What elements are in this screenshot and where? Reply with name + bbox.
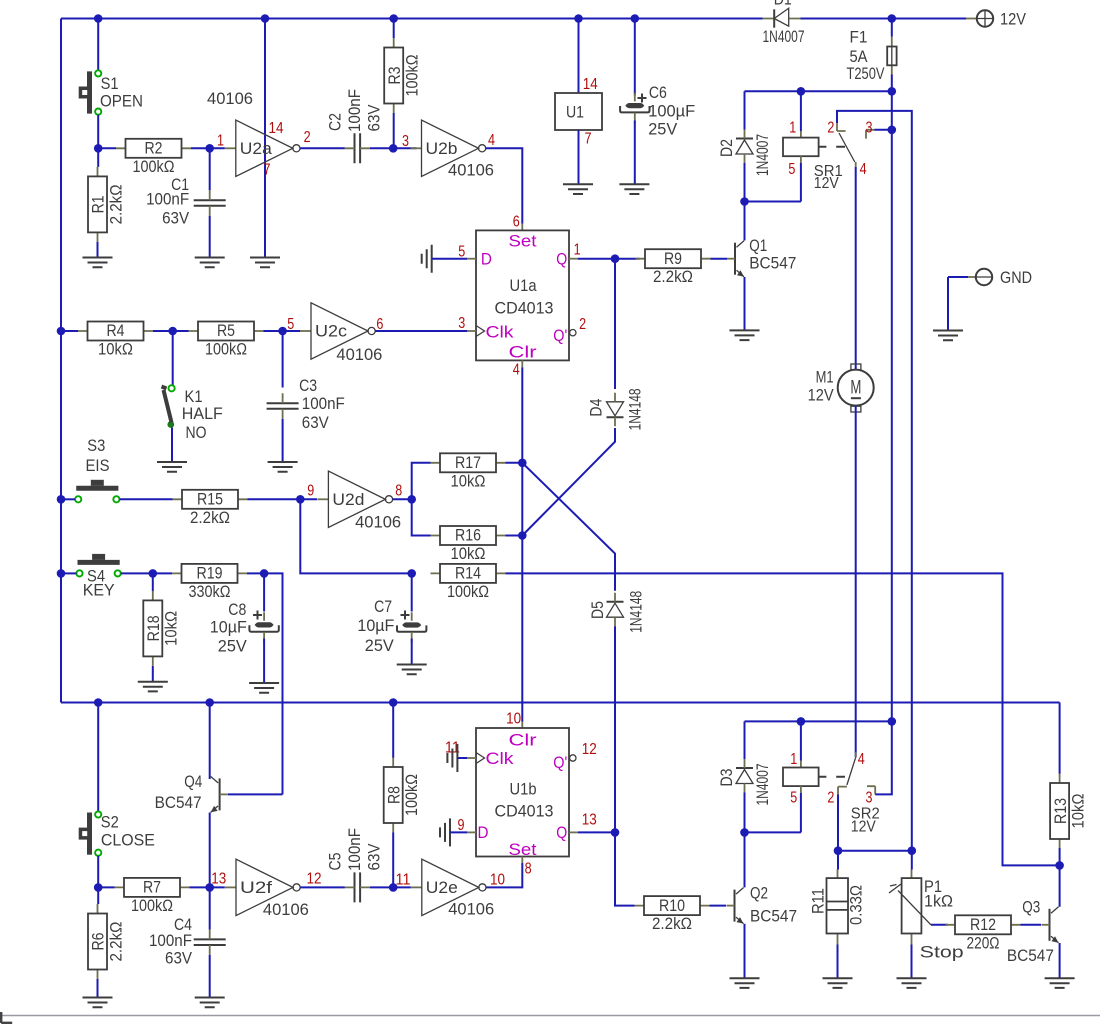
wire SR1 pin2 to sense line (837, 111, 912, 851)
svg-text:1kΩ: 1kΩ (924, 892, 953, 911)
svg-text:330kΩ: 330kΩ (189, 582, 231, 601)
svg-text:U1: U1 (566, 103, 584, 122)
ground tie at U1b D input (440, 818, 450, 846)
wire rail to S4 (61, 572, 76, 574)
wire U2f out to C5 (300, 886, 345, 888)
svg-text:10kΩ: 10kΩ (1068, 794, 1087, 829)
switch S4 KEY (76, 554, 120, 577)
wire D3 top (744, 721, 746, 759)
svg-text:R3: R3 (385, 67, 404, 85)
svg-text:R15: R15 (197, 490, 223, 509)
svg-text:100kΩ: 100kΩ (131, 896, 173, 915)
svg-text:1N4148: 1N4148 (626, 388, 645, 430)
svg-text:12: 12 (307, 871, 322, 888)
node junction rail/S4 (61,573.4) (57, 569, 66, 578)
wire motor to SR2 pin4 (855, 406, 857, 757)
resistor R15 2.2k (173, 490, 248, 527)
svg-text:U2a: U2a (240, 139, 273, 158)
svg-text:Q': Q' (553, 326, 567, 345)
wire R7 to U2f node (190, 886, 225, 888)
capacitor C3 100nF (267, 393, 299, 419)
svg-text:C5: C5 (326, 853, 345, 871)
wire Q2 collector (744, 832, 746, 887)
svg-text:40106: 40106 (207, 89, 253, 108)
svg-text:10kΩ: 10kΩ (162, 611, 181, 646)
svg-text:KEY: KEY (83, 581, 115, 600)
wire D5 to U1b Q node (614, 626, 616, 832)
svg-text:10µF: 10µF (210, 617, 247, 636)
IC U1b CD4013 flip-flop (476, 728, 576, 859)
svg-text:R18: R18 (144, 615, 163, 641)
wire C4 top (209, 887, 211, 929)
wire R6 top (97, 887, 99, 904)
svg-text:2.2kΩ: 2.2kΩ (652, 914, 692, 933)
relay SR1 coil (783, 138, 845, 157)
svg-text:R5: R5 (217, 321, 235, 340)
wire U1a Clr down to R17 node (521, 360, 523, 367)
wire C6 bottom (634, 121, 636, 184)
svg-text:100kΩ: 100kΩ (133, 157, 175, 176)
svg-text:BC547: BC547 (1007, 946, 1054, 965)
svg-text:10µF: 10µF (357, 616, 394, 635)
wire R13 bottom to Q3 collector node (1059, 848, 1061, 865)
inverter U2b 40106 (411, 120, 486, 176)
wire R19 to Q4 base (via down) (247, 573, 283, 794)
node junction SR2-2/R11 (838,850.7) (834, 846, 843, 855)
wire D2 top (744, 91, 746, 129)
wire U2d out node (393, 498, 412, 500)
node junction F1/rail (891.8,18.5) (888, 14, 897, 23)
node junction R2/C1/U2a (209.7,148.3) (205, 144, 214, 153)
ground symbol at GND terminal (933, 331, 963, 341)
ground below R18 (138, 682, 168, 692)
svg-text:U2f: U2f (240, 878, 272, 897)
resistor R7 100k (115, 878, 190, 915)
resistor R11 0.33R shunt (827, 870, 849, 945)
svg-text:63V: 63V (365, 104, 384, 132)
svg-text:3: 3 (458, 315, 465, 332)
wire U1b D input (450, 831, 467, 833)
wire S2 feed from bus (97, 703, 99, 812)
svg-text:2: 2 (579, 316, 586, 333)
svg-text:R11: R11 (809, 888, 828, 914)
svg-text:1N4007: 1N4007 (763, 27, 805, 46)
svg-text:M: M (850, 377, 861, 399)
ground tie at U1a D input (422, 245, 432, 273)
wire R2 to U2a input node (191, 147, 225, 149)
wire R10 to Q2 base (710, 905, 727, 907)
ground below C8 (249, 683, 279, 693)
supply terminal 12V (966, 10, 993, 26)
wire C7 top (411, 573, 413, 611)
svg-text:3: 3 (866, 789, 873, 806)
wire U2d input branch down to R14 line (300, 499, 411, 573)
svg-text:R19: R19 (197, 564, 223, 583)
node junction Q4/R7/U2f/C4 (209.7,887.4) (205, 883, 214, 892)
svg-text:40106: 40106 (263, 900, 309, 919)
inverter U2c 40106 (300, 303, 375, 359)
wire crossover R16-node to D4 (522, 428, 615, 536)
ground below R11 (823, 978, 853, 988)
svg-text:BC547: BC547 (749, 254, 796, 273)
resistor R10 2.2k (635, 896, 710, 933)
node junction R5/C3/U2c (282.6,331) (278, 327, 287, 336)
wire Q4 base from R19/C8 node (228, 793, 283, 795)
node junction F1/SR2-rail (891.8,721.4) (888, 717, 897, 726)
wire R11/P1 node link (838, 850, 912, 852)
svg-text:D: D (478, 823, 489, 842)
node junction U1/rail (578.5,18.5) (574, 14, 583, 23)
svg-text:100kΩ: 100kΩ (447, 582, 489, 601)
wire C6 top (634, 19, 636, 96)
svg-text:3: 3 (866, 119, 873, 136)
inverter U2e 40106 (411, 859, 486, 915)
fuse F1 (887, 37, 896, 75)
wire GND terminal drop (947, 277, 949, 330)
svg-text:Q: Q (556, 823, 567, 842)
ground below P1 (897, 978, 927, 988)
svg-text:6: 6 (513, 213, 520, 230)
resistor R9 2.2k (636, 249, 711, 286)
svg-text:100kΩ: 100kΩ (205, 340, 247, 359)
svg-text:Q2: Q2 (750, 884, 768, 903)
node junction SR2-coil/rail (800.9,721.4) (797, 717, 806, 726)
svg-text:BC547: BC547 (750, 907, 797, 926)
resistor R14 100k (431, 564, 506, 601)
wire R6 bottom (97, 979, 99, 997)
wire U1 pin7 to ground (578, 130, 580, 184)
ground below C3 (268, 462, 298, 472)
wire Q4 collector from bus (209, 703, 211, 780)
svg-text:C3: C3 (299, 376, 317, 395)
svg-text:7: 7 (585, 131, 592, 148)
svg-text:14: 14 (269, 120, 284, 137)
svg-text:12: 12 (582, 741, 597, 758)
svg-text:C2: C2 (326, 113, 345, 131)
ground below Q2 (730, 978, 760, 988)
wire U2d node to R16 (412, 499, 431, 535)
svg-text:0.33Ω: 0.33Ω (847, 885, 866, 925)
node junction rail/S3 (61,499.3) (57, 495, 66, 504)
svg-text:1: 1 (789, 120, 796, 137)
wire SR1 pin3 to F1 line (875, 129, 892, 131)
svg-text:R13: R13 (1051, 798, 1070, 824)
wire Q3 collector (1059, 865, 1061, 906)
wire R12 to Q3 base (1021, 924, 1042, 926)
svg-text:1: 1 (217, 133, 224, 150)
svg-text:40106: 40106 (355, 513, 401, 532)
wire K1 feed (172, 331, 174, 385)
svg-text:40106: 40106 (448, 900, 494, 919)
svg-text:4: 4 (860, 161, 867, 178)
svg-text:2: 2 (304, 129, 311, 146)
IC U1a CD4013 flip-flop (476, 230, 576, 361)
ground below U1 (563, 184, 593, 194)
wire 12V bus lower (61, 702, 1060, 704)
svg-text:Clr: Clr (509, 342, 537, 361)
wire Q1 emitter to ground (744, 277, 746, 330)
diode D3 1N4007 (736, 759, 753, 793)
wire C7 bottom (411, 639, 413, 664)
svg-text:R4: R4 (107, 321, 125, 340)
supply terminal GND (948, 269, 992, 285)
wire C8 bottom (263, 639, 265, 683)
svg-text:12V: 12V (1000, 10, 1027, 29)
svg-text:12V: 12V (851, 819, 877, 836)
relay SR2 coil (783, 768, 845, 787)
svg-text:R16: R16 (455, 526, 481, 545)
svg-text:Clk: Clk (486, 322, 515, 341)
node junction R3/rail (393.7,18.5) (389, 14, 398, 23)
wire C4 bottom (209, 955, 211, 997)
svg-text:63V: 63V (302, 413, 330, 432)
resistor R8 100k (384, 758, 421, 833)
svg-text:C6: C6 (649, 83, 667, 102)
wire SR2 pin3 to F1 line (875, 721, 892, 794)
svg-text:D4: D4 (587, 399, 606, 417)
node junction SR1-2/P1 (911.8,850.7) (908, 846, 917, 855)
svg-text:GND: GND (1000, 268, 1032, 287)
svg-text:U1a: U1a (510, 276, 537, 295)
svg-text:2.2kΩ: 2.2kΩ (653, 267, 693, 286)
svg-text:100kΩ: 100kΩ (402, 774, 421, 816)
transistor Q4 BC547 (mirrored) (211, 776, 228, 812)
switch S1 OPEN (79, 70, 102, 114)
wire C5 right to U2e node (370, 886, 393, 888)
wire Q1 collector (744, 202, 746, 241)
node junction S1/rail (98.2,18.5) (94, 14, 103, 23)
diode D4 1N4148 (607, 393, 624, 427)
node junction C2/R3/U2b (393.2,148.3) (389, 144, 398, 153)
wire Q3 emitter to ground (1059, 943, 1061, 978)
wire R3 bottom (393, 113, 395, 148)
svg-text:14: 14 (583, 76, 598, 93)
svg-text:EIS: EIS (86, 456, 110, 475)
wire R15 to U2d node (248, 498, 318, 500)
svg-text:S1: S1 (101, 74, 119, 93)
wire K1 to ground (171, 428, 173, 462)
svg-text:HALF: HALF (182, 404, 223, 423)
ground below C4 (195, 998, 225, 1008)
wire C3 bottom (282, 419, 284, 461)
motor M1 12V (838, 364, 874, 412)
potentiometer P1 1k (889, 870, 931, 945)
svg-text:2: 2 (827, 789, 834, 806)
wire D3 bottom to Q2 collector node (745, 793, 801, 833)
node junction S2/R6/R7 (98.2,887.4) (94, 883, 103, 892)
svg-text:2.2kΩ: 2.2kΩ (190, 508, 230, 527)
inverter U2f 40106 (225, 859, 300, 915)
wire R18 bottom (152, 666, 154, 681)
ground below C1 (195, 258, 225, 268)
capacitor C7 10uF electrolytic (397, 611, 426, 644)
resistor R19 330k (172, 564, 247, 601)
wire U1 pin14 feed (578, 19, 580, 94)
ground below U2a power (250, 258, 280, 268)
node junction R14/C7 (411.7,573.4) (407, 569, 416, 578)
transistor Q2 BC547 (727, 888, 744, 924)
svg-text:Set: Set (509, 231, 537, 250)
node junction bus/R8 (393.2,702.5) (389, 698, 398, 707)
wire R14 to R13/Q3 (long) (506, 573, 1060, 865)
node junction R8/C5/U2e (393.2,887.4) (389, 883, 398, 892)
svg-text:K1: K1 (185, 387, 203, 406)
ground below R1 (83, 258, 113, 268)
resistor R6 2.2k (88, 904, 125, 979)
svg-text:U1b: U1b (510, 779, 537, 798)
wire U1b Q to node (569, 831, 578, 833)
wire R16 to crossover node (506, 535, 523, 537)
svg-text:R6: R6 (89, 933, 108, 951)
wire U1a Q to R9 node (569, 258, 578, 260)
wire U2a out to C2 (300, 147, 345, 149)
svg-text:2: 2 (827, 119, 834, 136)
svg-text:5: 5 (287, 316, 294, 333)
wire U1a Set stub (521, 224, 523, 231)
svg-text:D1: D1 (774, 0, 792, 8)
resistor R16 10k (431, 526, 506, 563)
svg-text:1N4007: 1N4007 (753, 134, 772, 176)
svg-text:Clr: Clr (509, 731, 537, 750)
svg-text:Q: Q (556, 250, 567, 269)
resistor R4 10k (61, 321, 153, 358)
wire R11 bottom (837, 945, 839, 978)
wire U2c out to U1a Clk (375, 330, 467, 332)
svg-text:100nF: 100nF (149, 931, 192, 950)
ground below Q1 (730, 330, 760, 340)
svg-text:R10: R10 (659, 896, 685, 915)
ground below R6 (83, 998, 113, 1008)
transistor Q1 BC547 (727, 241, 744, 277)
wire R3 top (393, 19, 395, 39)
node junction rail/R4 (61,331) (57, 327, 66, 336)
node junction D3/SR2-5/Q2 (744.5,832.4) (740, 828, 749, 837)
ground below K1 (157, 462, 187, 472)
node junction F1/SR1-rail (891.8,91.3) (888, 87, 897, 96)
node junction S4/R18/R19 (152.8,573.4) (149, 569, 158, 578)
inverter U2d 40106 (317, 471, 392, 527)
wire C1 top (209, 148, 211, 190)
inverter U2a 40106 (225, 120, 300, 176)
svg-text:25V: 25V (648, 120, 678, 139)
svg-text:CD4013: CD4013 (495, 299, 554, 318)
svg-text:Set: Set (509, 840, 537, 859)
wire U2a power rail x=265 (264, 19, 266, 258)
wire P1 top (911, 851, 913, 870)
node junction U1bQ/D5/R10 (615,832.4) (611, 828, 620, 837)
svg-text:F1: F1 (850, 28, 868, 47)
svg-text:U2c: U2c (315, 322, 348, 341)
wire SR2 pin2 down to R11/P1 node (837, 794, 839, 850)
svg-text:Stop: Stop (920, 943, 964, 962)
svg-text:R14: R14 (455, 564, 481, 583)
svg-text:R2: R2 (145, 139, 163, 158)
node junction R4/R5/K1 (172.7,331) (168, 327, 177, 336)
svg-text:63V: 63V (365, 843, 384, 871)
resistor R1 2.2k (88, 167, 125, 242)
wire S1 to R2/R1 node (97, 115, 99, 149)
svg-text:4: 4 (488, 132, 495, 149)
svg-text:Q': Q' (553, 753, 567, 772)
resistor R13 10k (1050, 774, 1087, 849)
switch K1 reed HALF NO (162, 385, 175, 428)
svg-text:11: 11 (396, 872, 411, 889)
ground below Q3 (1045, 978, 1075, 988)
relay SR2 contact (838, 752, 875, 794)
svg-text:12V: 12V (814, 175, 840, 192)
capacitor C5 100nF (345, 872, 371, 902)
svg-text:BC547: BC547 (155, 793, 202, 812)
svg-text:100µF: 100µF (648, 101, 695, 120)
wire F1 to relay rail (891, 74, 893, 721)
svg-text:5: 5 (788, 161, 795, 178)
svg-text:7: 7 (264, 162, 271, 179)
wire Q1 node down to D4 (614, 259, 616, 389)
svg-text:8: 8 (395, 482, 402, 499)
wire U1b Q node to R10 (615, 832, 635, 905)
svg-text:1: 1 (574, 242, 581, 259)
node junction R15/U2d-in (300.3,499.3) (296, 495, 305, 504)
svg-text:25V: 25V (218, 636, 248, 655)
node junction R13/R14/Q3 (1059.6,865.4) (1055, 861, 1064, 870)
svg-text:63V: 63V (165, 949, 193, 968)
node junction Q1a/R9/D4 (615,258.7) (611, 254, 620, 263)
svg-text:Q1: Q1 (749, 236, 767, 255)
wire R18 top (152, 573, 154, 591)
wire U1b Set from U2e (521, 857, 523, 864)
svg-text:S3: S3 (87, 436, 105, 455)
wire U1a Clr continues to U1b Clr (521, 536, 523, 722)
svg-text:1: 1 (790, 751, 797, 768)
svg-text:M1: M1 (816, 368, 834, 387)
svg-text:13: 13 (211, 871, 226, 888)
svg-text:10: 10 (506, 711, 521, 728)
wire bus to R13 (1059, 703, 1061, 775)
svg-text:4: 4 (513, 362, 520, 379)
node junction R16/Clr (522.3,535.5) (518, 531, 527, 540)
wire U1b Clk input (457, 757, 467, 759)
ground below C6 (619, 184, 649, 194)
node junction bus/S2 (98.2,702.5) (94, 698, 103, 707)
switch S3 EIS (75, 480, 119, 503)
transistor Q3 BC547 (1042, 907, 1059, 943)
resistor R12 220R (946, 915, 1021, 952)
wire Q2 emitter to ground (744, 924, 746, 978)
svg-text:Q3: Q3 (1022, 897, 1040, 916)
resistor R17 10k (431, 453, 506, 490)
wire R11 top (837, 851, 839, 870)
wire node S1-R1-R2 (98, 147, 116, 149)
svg-text:OPEN: OPEN (100, 92, 143, 111)
node junction S1/R1/R2 (98.2,148.3) (94, 144, 103, 153)
svg-text:8: 8 (525, 860, 532, 877)
svg-text:D3: D3 (717, 769, 736, 787)
wire C2 to R3/U2b node (370, 147, 417, 149)
resistor R5 100k (153, 321, 264, 358)
svg-text:S2: S2 (101, 813, 119, 832)
diode D1 1N4007 (763, 8, 801, 28)
wire U1a D input (432, 258, 468, 260)
wire U2d node to R17 (412, 463, 431, 500)
wire U2b out to U1a Set (486, 148, 523, 223)
svg-text:10kΩ: 10kΩ (451, 544, 486, 563)
svg-text:C7: C7 (374, 597, 392, 616)
svg-text:13: 13 (582, 812, 597, 829)
wire SR1 coil pin1 (800, 91, 802, 131)
svg-text:4: 4 (858, 751, 865, 768)
svg-text:100nF: 100nF (345, 89, 364, 132)
diode D2 1N4007 (736, 130, 753, 164)
